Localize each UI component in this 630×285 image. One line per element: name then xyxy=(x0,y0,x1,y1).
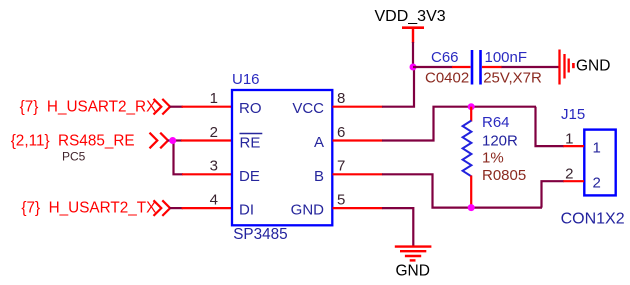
pin 4 lead DI xyxy=(182,207,233,209)
svg-text:1: 1 xyxy=(565,130,573,147)
svg-text:2: 2 xyxy=(593,175,601,192)
wire top rail down to J15 pin1 xyxy=(536,107,565,146)
junction R64 bottom xyxy=(468,204,475,211)
svg-text:4: 4 xyxy=(210,191,218,208)
svg-text:C0402: C0402 xyxy=(425,70,469,87)
svg-text:SP3485: SP3485 xyxy=(233,226,287,243)
wire A net to top rail xyxy=(382,107,536,141)
pin 1 lead RO xyxy=(182,106,233,108)
wire DI net xyxy=(170,207,184,209)
svg-text:7: 7 xyxy=(337,158,345,175)
wire RS485_RE vertical to DE xyxy=(174,141,184,175)
ground GND (bottom earth) xyxy=(395,247,432,280)
junction R64 top xyxy=(468,103,475,110)
svg-text:VCC: VCC xyxy=(292,100,324,117)
ground GND (right power bar) xyxy=(560,50,611,85)
svg-text:2: 2 xyxy=(210,124,218,141)
svg-text:B: B xyxy=(314,168,324,185)
svg-text:GND: GND xyxy=(291,202,325,219)
pin 6 lead A xyxy=(333,139,383,141)
wire VDD vertical xyxy=(412,42,414,68)
svg-text:8: 8 xyxy=(337,90,345,107)
svg-text:5: 5 xyxy=(337,191,345,208)
port {7} H_USART2_RX xyxy=(20,98,170,115)
svg-text:A: A xyxy=(314,134,324,151)
svg-text:1: 1 xyxy=(210,90,218,107)
svg-text:R0805: R0805 xyxy=(482,167,526,184)
svg-text:J15: J15 xyxy=(561,106,585,123)
pin 2 lead RE xyxy=(181,139,233,141)
wire RO net xyxy=(170,106,184,108)
wire C66 to GND xyxy=(502,66,560,68)
svg-text:DI: DI xyxy=(239,202,254,219)
svg-text:{7} H_USART2_TX: {7} H_USART2_TX xyxy=(21,199,156,216)
pin 8 lead VCC xyxy=(333,106,383,108)
svg-text:{7} H_USART2_RX: {7} H_USART2_RX xyxy=(20,98,157,115)
connector J15 CON1X2 xyxy=(561,106,625,227)
svg-text:GND: GND xyxy=(396,263,430,280)
svg-text:RE: RE xyxy=(240,134,261,151)
svg-text:CON1X2: CON1X2 xyxy=(561,211,625,228)
svg-text:DE: DE xyxy=(239,168,260,185)
port {2,11} RS485_RE xyxy=(11,132,168,149)
power VDD_3V3 xyxy=(375,8,446,43)
pin 7 lead B xyxy=(333,173,383,175)
pin name RE (with overbar) xyxy=(240,134,263,152)
op-amp U16 body SP3485 xyxy=(232,71,332,243)
svg-text:U16: U16 xyxy=(232,71,260,88)
resistor R64 xyxy=(463,107,527,208)
pin 2 lead J15 xyxy=(563,180,584,182)
svg-text:{2,11} RS485_RE: {2,11} RS485_RE xyxy=(11,132,135,149)
svg-text:R64: R64 xyxy=(482,114,510,131)
svg-text:6: 6 xyxy=(337,124,345,141)
pin 5 lead GND xyxy=(333,207,383,209)
junction VDD node xyxy=(410,64,417,71)
wire GND net down xyxy=(382,208,413,246)
wire bottom rail up to J15 pin2 xyxy=(542,181,565,207)
svg-text:PC5: PC5 xyxy=(62,150,86,164)
svg-text:120R: 120R xyxy=(482,133,518,150)
svg-text:100nF: 100nF xyxy=(485,49,528,66)
svg-text:GND: GND xyxy=(576,57,610,74)
svg-text:25V,X7R: 25V,X7R xyxy=(483,70,542,87)
capacitor C66 xyxy=(425,49,542,86)
svg-text:3: 3 xyxy=(210,158,218,175)
svg-text:1%: 1% xyxy=(482,150,504,167)
svg-text:C66: C66 xyxy=(431,49,459,66)
svg-text:1: 1 xyxy=(593,140,601,157)
wire VDD to C66 xyxy=(413,66,453,68)
wire B net to bottom rail xyxy=(382,174,542,207)
svg-text:VDD_3V3: VDD_3V3 xyxy=(375,8,446,25)
svg-text:2: 2 xyxy=(565,165,573,182)
wire RS485_RE net to junction xyxy=(168,139,183,141)
pin 1 lead J15 xyxy=(563,145,584,147)
wire VCC to VDD junction xyxy=(382,67,414,107)
svg-text:RO: RO xyxy=(239,100,262,117)
pin 3 lead DE xyxy=(182,173,233,175)
port {7} H_USART2_TX xyxy=(21,199,170,216)
junction RS485_RE xyxy=(169,137,176,144)
